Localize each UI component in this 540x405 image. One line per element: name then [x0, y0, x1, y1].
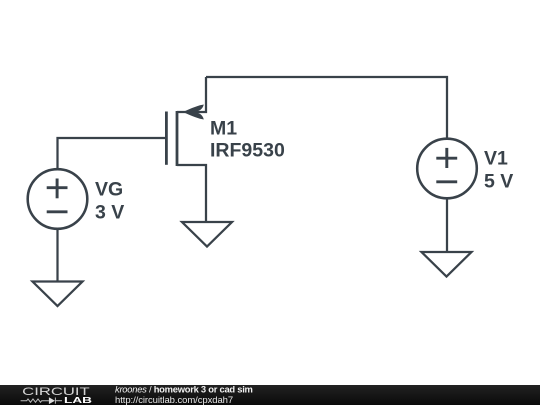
svg-text:http://circuitlab.com/cpxdah7: http://circuitlab.com/cpxdah7	[115, 395, 233, 405]
wire M1 drain to ground	[177, 165, 206, 223]
svg-text:VG: VG	[95, 178, 123, 200]
voltage source V1	[417, 139, 477, 199]
wire VG top to M1 gate	[58, 138, 166, 170]
svg-text:kroones / homework 3 or cad si: kroones / homework 3 or cad sim	[115, 384, 253, 395]
wire V1 bottom to ground	[446, 197, 448, 252]
wire M1 source to top node	[177, 77, 206, 112]
svg-text:IRF9530: IRF9530	[210, 140, 285, 162]
svg-text:LAB: LAB	[64, 395, 92, 405]
voltage source VG	[28, 169, 88, 229]
svg-text:M1: M1	[210, 118, 237, 140]
ground (M1 drain)	[182, 222, 232, 247]
transistor M1 IRF9530	[166, 105, 203, 167]
footer bar	[0, 385, 540, 405]
svg-text:5 V: 5 V	[484, 170, 513, 192]
svg-text:3 V: 3 V	[95, 201, 124, 223]
svg-text:V1: V1	[484, 147, 508, 169]
CircuitLab logo	[21, 386, 92, 405]
wire top node to V1	[206, 77, 447, 140]
ground (V1)	[422, 252, 472, 277]
ground (VG)	[33, 282, 83, 307]
wire VG bottom to ground	[56, 228, 58, 282]
